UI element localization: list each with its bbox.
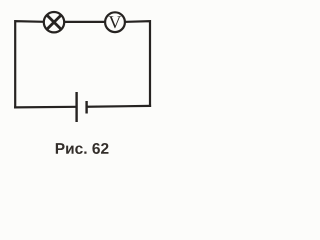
caption "Рис. 62" [56,143,109,154]
battery GB1 long plate [75,92,77,122]
wire bottom-right segment [88,105,151,108]
voltmeter PV1 [105,12,125,32]
wire top-left corner segment [15,21,43,107]
battery GB1 short plate [85,101,87,114]
wire between lamp and voltmeter [64,21,105,23]
wire bottom-left segment [15,106,75,109]
wire top-right corner segment [125,21,150,106]
lamp EL1 [44,12,64,32]
